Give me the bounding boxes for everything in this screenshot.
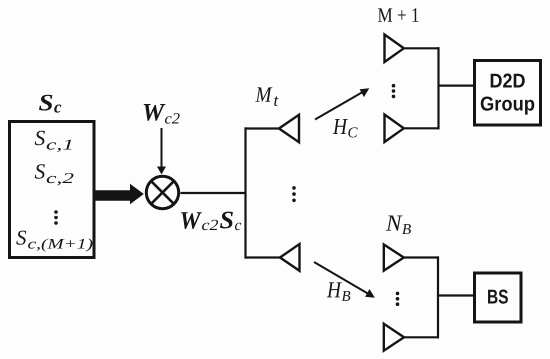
vertical dots transmit array: [292, 186, 296, 190]
label Wc2Sc: [181, 212, 202, 229]
label Sc,2: [35, 164, 45, 178]
label HC: [333, 119, 348, 134]
wire D2D bus to D2D box: [438, 84, 475, 86]
vertical dots D2D array: [392, 84, 396, 88]
channel arrow HB: [314, 262, 370, 295]
top BS receive antenna: [384, 245, 404, 271]
label Sc,(M+1): [16, 231, 26, 245]
thick signal arrow from source box to mixer: [96, 184, 144, 204]
mixer / multiplier (circle with X): [146, 176, 178, 208]
transmit antenna bus: [244, 127, 246, 258]
BS box: [475, 273, 522, 322]
D2D receive bus: [437, 47, 439, 129]
top D2D receive antenna: [385, 35, 404, 63]
wire bottom BS antenna to bus: [404, 336, 440, 338]
wire mixer to antenna bus: [181, 192, 247, 194]
wire top BS antenna to bus: [403, 256, 439, 258]
bottom D2D receive antenna: [385, 115, 404, 143]
wire top D2D antenna to bus: [403, 47, 439, 49]
wire to bottom transmit antenna: [245, 256, 281, 258]
vertical dots inside source box: [54, 210, 58, 214]
bottom transmit antenna: [280, 244, 300, 271]
label Mt (number of tx antennas): [255, 87, 272, 101]
top transmit antenna: [279, 115, 299, 142]
bottom BS receive antenna: [384, 324, 404, 351]
channel arrow HC: [315, 91, 364, 119]
label Wc2 (precoder): [144, 104, 166, 121]
label Sc (source vector): [39, 95, 52, 111]
source symbol box S: [10, 122, 95, 258]
wire bottom D2D antenna to bus: [403, 127, 439, 129]
arrow Wc2 into mixer: [161, 128, 163, 168]
BS receive bus: [437, 256, 439, 338]
label NB (number of BS antennas): [386, 216, 403, 231]
D2D Group box: [475, 61, 541, 126]
vertical dots BS array: [396, 292, 400, 296]
label M+1 (number of D2D rx antennas): [378, 8, 418, 22]
label Sc,1: [35, 131, 45, 145]
wire to top transmit antenna: [245, 127, 280, 129]
wire BS bus to BS box: [437, 294, 475, 296]
label HB: [327, 282, 342, 297]
